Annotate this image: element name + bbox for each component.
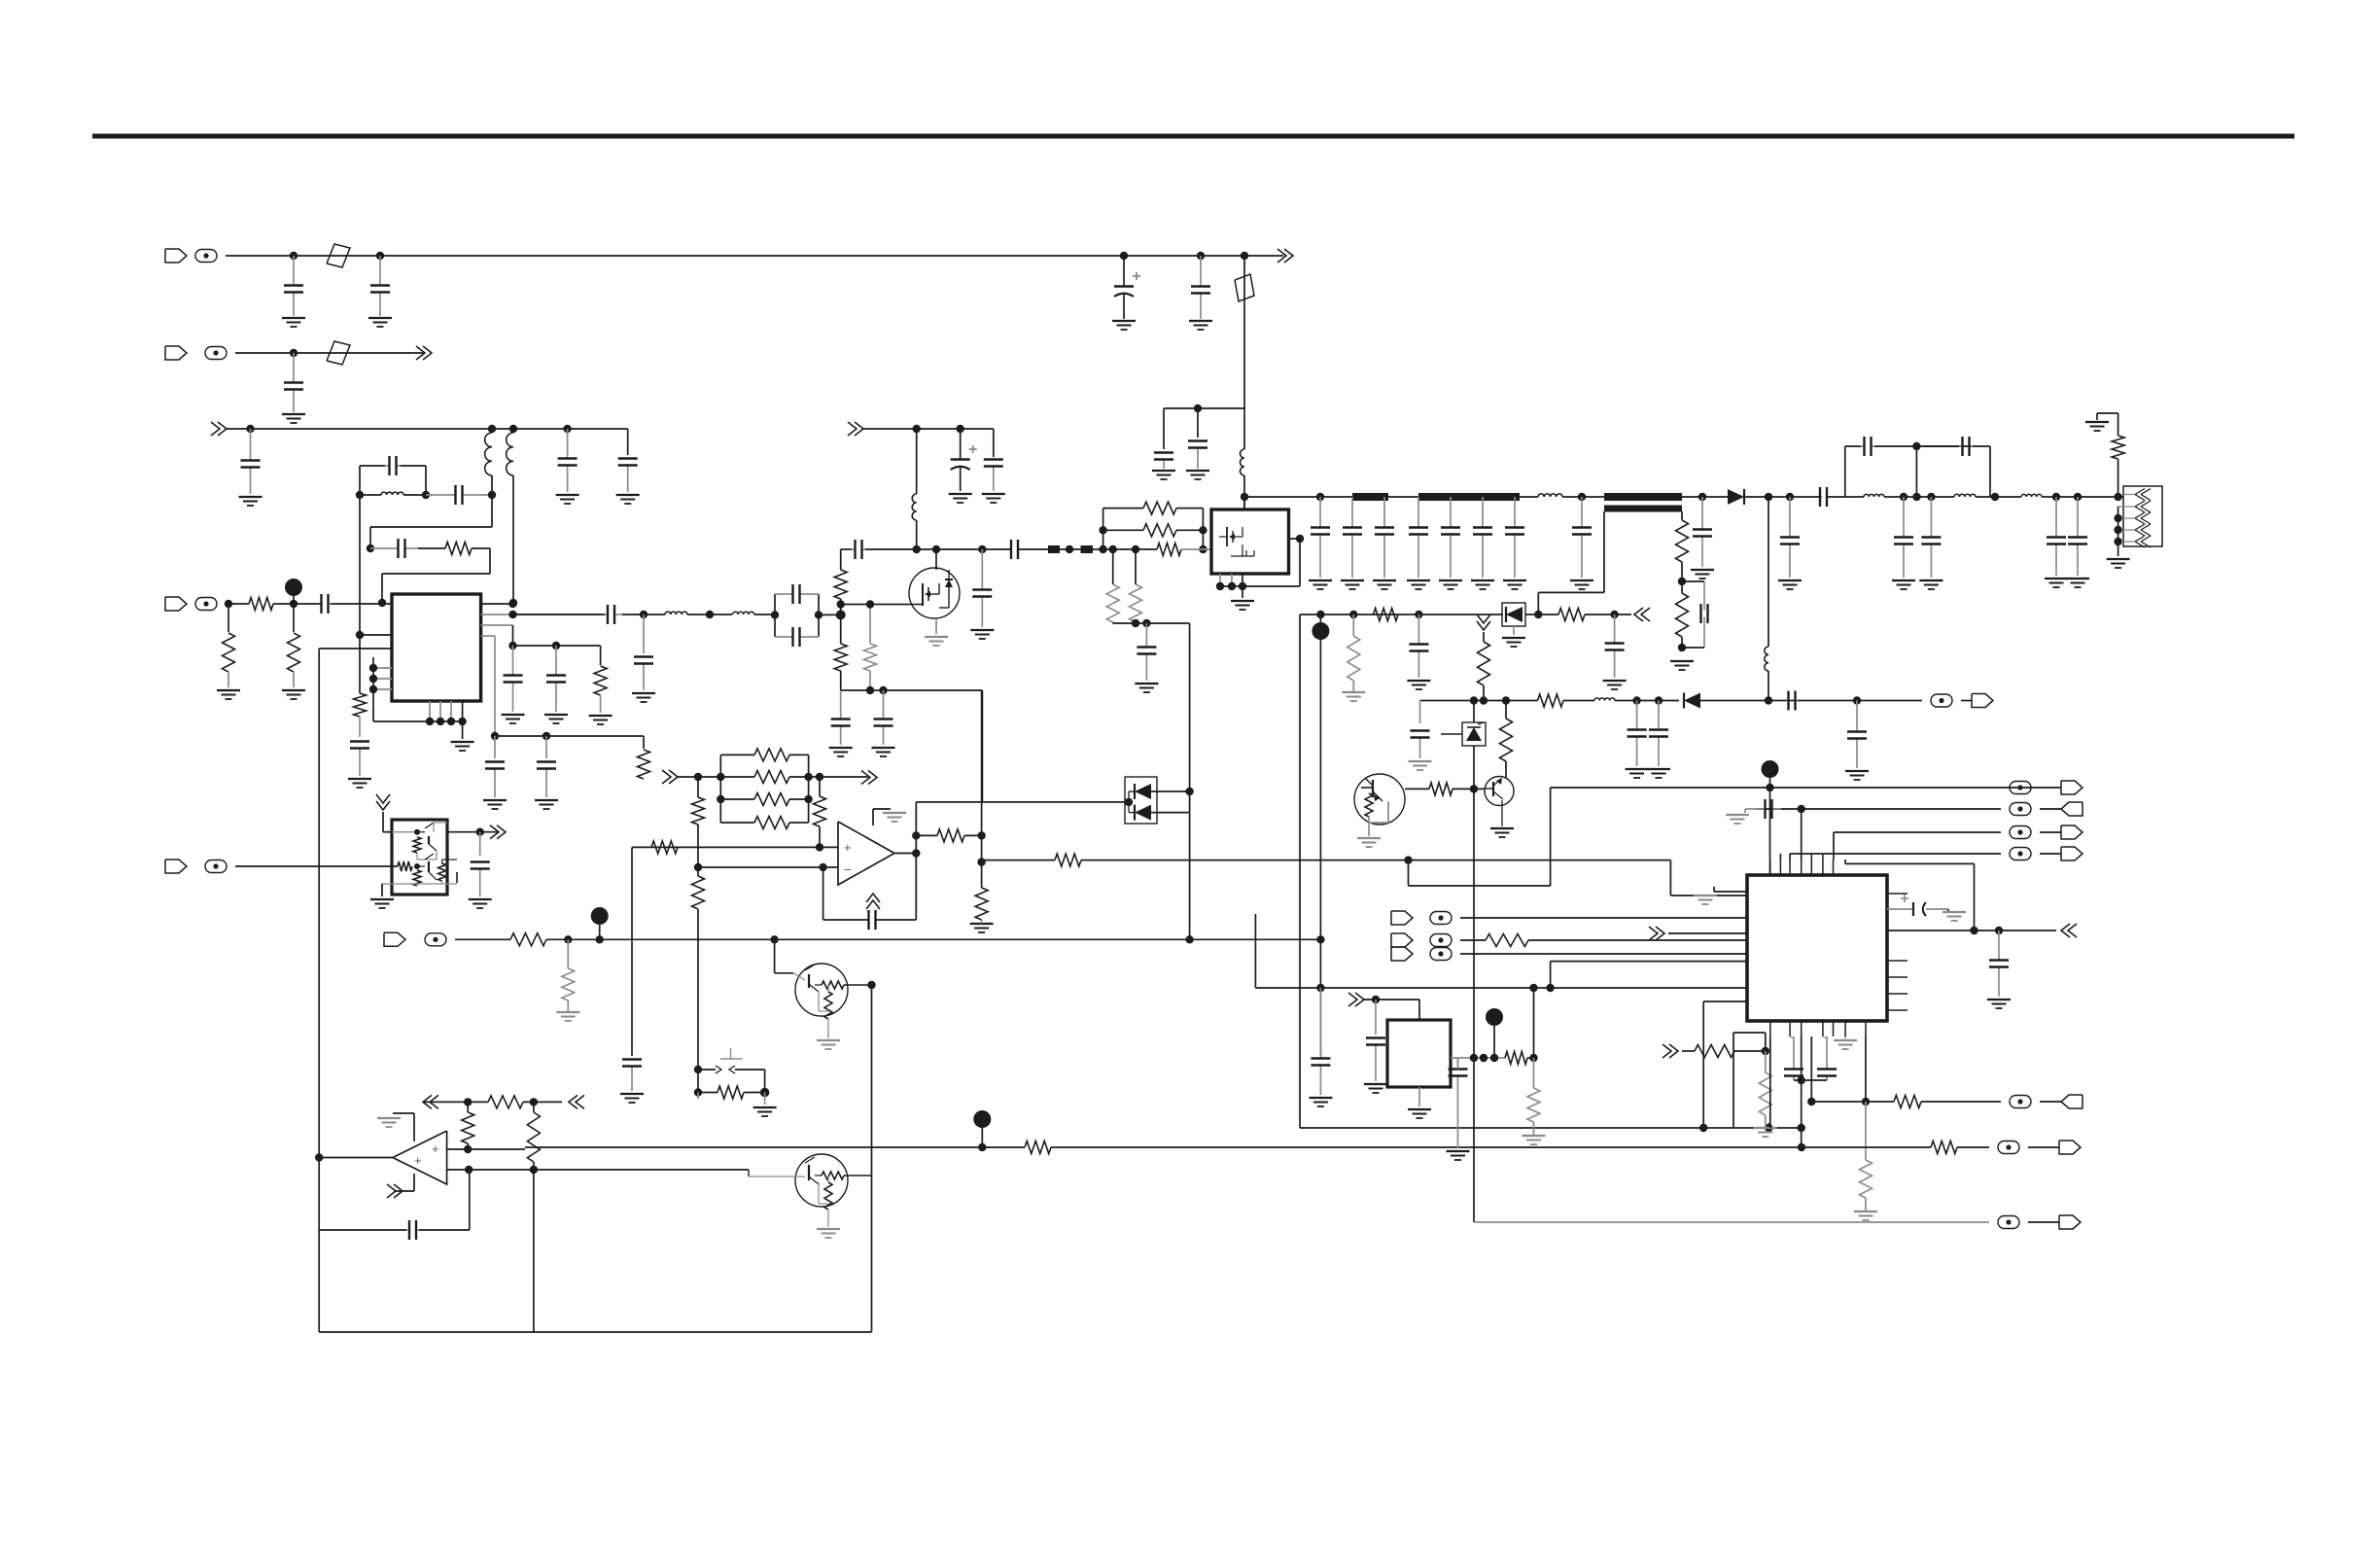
ground bbox=[817, 1039, 840, 1041]
wire bbox=[545, 736, 547, 758]
wire row799 bbox=[678, 776, 720, 778]
junction bbox=[1900, 493, 1907, 501]
wire bbox=[1921, 1101, 2001, 1103]
ground bbox=[970, 923, 994, 925]
capacitor C10 bbox=[627, 466, 629, 493]
wire bbox=[226, 603, 249, 605]
junction bbox=[1316, 493, 1324, 501]
off-page arrow bbox=[497, 825, 506, 839]
resistor R24 bbox=[1538, 694, 1564, 707]
collector out bbox=[447, 831, 498, 833]
plus row bbox=[447, 1148, 469, 1150]
capacitor C53 bbox=[1658, 701, 1660, 730]
junction bbox=[1099, 526, 1106, 534]
junction bbox=[816, 843, 823, 851]
resistor R47 bbox=[1505, 1052, 1527, 1065]
resistor R41 bbox=[717, 1086, 744, 1099]
wire bbox=[1164, 407, 1244, 409]
junction bbox=[1132, 545, 1139, 553]
capacitor C36 bbox=[1482, 497, 1484, 528]
wire bbox=[1528, 939, 1747, 941]
connector J4 antenna bbox=[2123, 486, 2162, 546]
pin3 bbox=[481, 624, 513, 626]
ground bbox=[1135, 683, 1158, 685]
resistor R15 bbox=[1130, 584, 1142, 622]
wire bbox=[600, 646, 602, 665]
inductor L1 bbox=[1241, 449, 1245, 475]
ground bbox=[1231, 600, 1254, 602]
junction bbox=[246, 425, 254, 433]
ground stub bbox=[1513, 626, 1515, 635]
junction bbox=[1470, 1054, 1478, 1062]
wire bbox=[1364, 999, 1419, 1001]
wire bbox=[1419, 701, 1421, 724]
capacitor C28b bbox=[852, 548, 856, 550]
junction big bbox=[836, 610, 846, 619]
feedback row bbox=[319, 1229, 406, 1231]
capacitor C14 bbox=[359, 749, 361, 777]
wire bbox=[1243, 256, 1245, 408]
junction bbox=[1798, 1076, 1805, 1084]
transistor Q4 inside bbox=[392, 831, 417, 833]
capacitor C57 bbox=[867, 919, 870, 921]
power hook bbox=[413, 1113, 415, 1141]
ground bbox=[1152, 470, 1175, 472]
wire bbox=[1420, 700, 1538, 702]
resistor R46 bbox=[1486, 934, 1528, 947]
arrow bbox=[394, 1184, 402, 1198]
wire bbox=[381, 884, 383, 896]
wire bbox=[915, 802, 917, 920]
capacitor C18 bbox=[512, 646, 514, 676]
wire bbox=[273, 603, 321, 605]
junction bbox=[706, 611, 714, 618]
junction bbox=[315, 1153, 323, 1161]
capacitor C40 bbox=[1699, 604, 1701, 623]
wire main line bbox=[1320, 496, 1352, 498]
capacitor C29 bbox=[1010, 548, 1012, 550]
wire bbox=[359, 635, 361, 693]
wire bbox=[1460, 953, 1747, 955]
capacitor C35 bbox=[1450, 497, 1452, 528]
wire bbox=[1767, 497, 1769, 647]
wire bbox=[982, 1146, 1025, 1148]
resistor R34 bbox=[692, 876, 705, 909]
junction bbox=[422, 491, 430, 499]
off-page arrow bbox=[1477, 621, 1490, 630]
inductor L2 bbox=[485, 433, 492, 475]
capacitor C11 bbox=[385, 465, 390, 467]
wire bbox=[1460, 939, 1486, 941]
wire bbox=[1915, 446, 1917, 497]
ferrite bead E17 bbox=[1998, 1216, 2019, 1229]
IC U1 driver bbox=[392, 594, 481, 701]
ferrite bead E1 bbox=[195, 250, 217, 263]
wire bbox=[360, 494, 381, 496]
ground bbox=[483, 799, 507, 801]
ground bbox=[368, 317, 392, 319]
wire bbox=[382, 812, 384, 832]
wire bbox=[1681, 562, 1683, 581]
connector J8 bbox=[384, 932, 405, 946]
capacitor C65 bbox=[1998, 931, 2000, 961]
junction bbox=[488, 425, 496, 433]
ground bbox=[589, 715, 612, 717]
wire bbox=[1585, 614, 1631, 615]
wire bbox=[419, 1229, 470, 1231]
wire bbox=[1102, 509, 1104, 549]
wire bbox=[981, 690, 983, 888]
wire bbox=[1779, 854, 1781, 860]
ground bbox=[451, 741, 474, 743]
off-page arrow bbox=[569, 1095, 577, 1108]
capacitor C23 bbox=[787, 636, 793, 638]
junction bbox=[1762, 1047, 1769, 1055]
junction bbox=[508, 642, 516, 650]
wire bbox=[643, 614, 645, 653]
resistor R35 bbox=[937, 829, 964, 842]
junction bbox=[1853, 696, 1861, 704]
junction bbox=[1995, 927, 2003, 934]
ferrite bead E10 bbox=[1430, 948, 1452, 961]
off-page arrow bbox=[1634, 608, 1643, 621]
junction bbox=[1699, 1124, 1707, 1132]
ground bbox=[1364, 1083, 1387, 1085]
wire bbox=[331, 603, 392, 605]
capacitor C64 electrolytic bbox=[1912, 902, 1914, 916]
ground bbox=[817, 1228, 840, 1230]
ground bbox=[1691, 569, 1714, 571]
ground bbox=[1778, 579, 1802, 581]
wire bbox=[1681, 581, 1683, 593]
junction bbox=[1199, 526, 1207, 534]
wire plus row bbox=[632, 846, 838, 848]
connector J9 bbox=[1391, 911, 1413, 925]
junction bbox=[1529, 984, 1537, 992]
ground bbox=[1490, 827, 1514, 829]
feedback row bbox=[822, 867, 824, 920]
resistor R20 bbox=[1374, 609, 1399, 621]
ground bbox=[620, 1093, 644, 1095]
junction bbox=[913, 545, 921, 553]
pin stubs left bbox=[373, 667, 392, 669]
capacitor C2 bbox=[379, 256, 381, 286]
output bbox=[319, 1157, 393, 1159]
resistor R53 bbox=[1931, 1141, 1957, 1154]
wire bbox=[226, 255, 1283, 257]
collector bbox=[1505, 777, 1507, 779]
wire bbox=[1254, 914, 1256, 988]
wire loop1 bbox=[359, 466, 361, 495]
wire bbox=[819, 614, 841, 615]
off-page arrow bbox=[855, 422, 863, 436]
junction bbox=[1991, 493, 1999, 501]
supply pin bbox=[1243, 497, 1245, 509]
connector J16 bbox=[2061, 1095, 2082, 1108]
resistor R44 bbox=[527, 1112, 540, 1162]
ground bbox=[1647, 768, 1670, 770]
output bbox=[894, 853, 916, 855]
wire long vertical x328 bbox=[318, 649, 320, 1332]
diode D2 in box bbox=[1502, 603, 1525, 626]
junction bbox=[1241, 252, 1248, 260]
resistor R28 bbox=[754, 771, 789, 784]
test point TP4 bbox=[591, 907, 609, 925]
wire bbox=[697, 825, 699, 867]
junction bbox=[1197, 252, 1205, 260]
ground bbox=[1407, 680, 1430, 682]
wire bbox=[1299, 614, 1301, 1128]
wire bbox=[1460, 917, 1747, 919]
junction bbox=[1502, 696, 1510, 704]
wire bbox=[423, 1101, 488, 1103]
off-page arrow bbox=[868, 771, 877, 785]
IC U4 bias block bbox=[392, 820, 447, 895]
resistor R8 bbox=[834, 570, 847, 599]
junction bbox=[640, 611, 647, 618]
capacitor C56 bbox=[631, 1067, 633, 1092]
wire bbox=[455, 938, 510, 940]
wire bbox=[1961, 700, 1972, 702]
ground bbox=[2085, 421, 2109, 423]
wire bbox=[1767, 1123, 1769, 1128]
wire row641 bbox=[1112, 622, 1114, 623]
wire bbox=[1767, 671, 1769, 701]
junction bbox=[1372, 996, 1380, 1003]
wire bbox=[1473, 701, 1475, 723]
wire bbox=[479, 832, 481, 856]
inductor L9 bbox=[1765, 647, 1768, 671]
wire bbox=[359, 495, 361, 635]
capacitor C13 bbox=[370, 547, 399, 549]
test point TP5 bbox=[973, 1110, 991, 1128]
junction bbox=[1765, 1124, 1772, 1132]
connector J7 bbox=[165, 860, 187, 873]
ground bbox=[949, 493, 972, 495]
capacitor C25 bbox=[883, 690, 885, 720]
gate row bbox=[841, 604, 910, 606]
wire bbox=[1452, 788, 1486, 790]
off-page arrow bbox=[423, 1095, 432, 1108]
pin gray bbox=[481, 635, 495, 637]
junction bbox=[1120, 252, 1128, 260]
capacitor C17 bbox=[494, 769, 496, 798]
junction bbox=[1529, 1054, 1537, 1062]
capacitor C34 bbox=[1417, 497, 1419, 528]
dual diode D4 in box bbox=[1125, 777, 1157, 824]
connector J6 bbox=[2061, 781, 2082, 794]
resistor R23 bbox=[1500, 719, 1513, 761]
capacitor C45 bbox=[1903, 497, 1905, 538]
capacitor C3 electrolytic bbox=[1123, 256, 1125, 287]
ground bbox=[632, 692, 655, 694]
ground bbox=[1603, 680, 1627, 682]
resistor R40 bbox=[562, 968, 575, 1001]
bottom pins U2 bbox=[1219, 574, 1221, 586]
gnd hook bbox=[1714, 891, 1747, 893]
wire bbox=[1765, 1033, 1767, 1051]
row C2 right bbox=[1802, 1146, 1931, 1148]
wire bbox=[916, 520, 918, 549]
resistor R39 bbox=[510, 933, 546, 946]
junction bbox=[1912, 442, 1920, 450]
connector J5 bbox=[1972, 694, 1993, 708]
op-amp U3B bbox=[393, 1131, 447, 1184]
transistor Q2 bbox=[1354, 774, 1405, 825]
ferrite bead E9 bbox=[1430, 934, 1452, 947]
resistor R29 bbox=[754, 793, 789, 806]
junction bbox=[356, 491, 364, 499]
wire bbox=[293, 672, 295, 687]
wire bbox=[840, 549, 842, 570]
bottom rail bbox=[319, 1331, 871, 1333]
wire bbox=[863, 428, 994, 430]
wire supply row bbox=[1244, 496, 1320, 498]
ground bbox=[1845, 770, 1869, 772]
junction bbox=[837, 600, 845, 608]
wire bbox=[622, 614, 665, 615]
wire bbox=[494, 736, 496, 758]
resistor R45 bbox=[1025, 1141, 1051, 1154]
junction bbox=[694, 1066, 702, 1073]
wire row1016 bbox=[1255, 987, 1747, 989]
wire coupler tap right bbox=[1681, 511, 1683, 520]
capacitor C24 bbox=[840, 690, 842, 720]
off-page arrow bbox=[423, 346, 432, 360]
transistor Q7 bbox=[795, 1154, 848, 1207]
wire bbox=[916, 801, 1129, 803]
junction bbox=[816, 773, 823, 781]
resistor R3 bbox=[223, 633, 235, 672]
junction bbox=[1610, 611, 1618, 618]
ground bbox=[469, 898, 492, 900]
junction bbox=[465, 1166, 472, 1174]
wire bbox=[1525, 614, 1558, 615]
top rail bbox=[1844, 446, 1846, 497]
wire bbox=[1527, 1057, 1534, 1059]
wire bbox=[227, 604, 229, 632]
connector J18 bbox=[2059, 1215, 2081, 1229]
resistor R31 bbox=[814, 796, 826, 826]
pin row bbox=[319, 648, 392, 650]
junction bbox=[771, 611, 779, 618]
minus row bbox=[447, 1169, 749, 1171]
coupler primary Z5 bbox=[1604, 493, 1682, 501]
capacitor C12 bbox=[426, 494, 456, 496]
junction bbox=[464, 1145, 472, 1153]
capacitor C49 bbox=[1417, 614, 1419, 645]
wire row878 bbox=[1790, 853, 2001, 855]
ground bbox=[982, 493, 1005, 495]
capacitor C33 bbox=[1383, 497, 1385, 528]
ground bbox=[502, 714, 525, 716]
svg-text:−: − bbox=[844, 862, 852, 877]
capacitor C4 bbox=[1200, 256, 1202, 287]
resistor R42 bbox=[488, 1096, 523, 1108]
junction bbox=[1766, 784, 1773, 791]
connector J11 bbox=[1391, 947, 1413, 961]
junction bbox=[760, 1088, 770, 1098]
wire bbox=[1702, 1001, 1704, 1128]
wire bbox=[764, 1093, 766, 1106]
junction bbox=[290, 600, 297, 608]
wire bbox=[1150, 812, 1190, 814]
wire bracket bbox=[372, 657, 374, 721]
ferrite bead E2 bbox=[205, 347, 227, 360]
capacitor C39 bbox=[1701, 497, 1703, 530]
junction bbox=[1798, 1124, 1805, 1132]
wire bbox=[916, 429, 918, 494]
resistor R26 bbox=[692, 797, 705, 825]
ground bbox=[1309, 1097, 1332, 1099]
ground bbox=[925, 636, 948, 638]
off-page arrow bbox=[218, 422, 227, 436]
wire bbox=[1060, 548, 1081, 550]
bottom pin bbox=[1418, 1087, 1420, 1106]
capacitor C22 bbox=[787, 593, 793, 595]
IC U5 bbox=[1747, 875, 1887, 1021]
capacitor C63 bbox=[1756, 808, 1766, 810]
off-page arrow bbox=[669, 770, 678, 784]
junction bbox=[2114, 493, 2121, 501]
wire bbox=[235, 352, 424, 354]
ferrite bead E15 bbox=[2010, 1096, 2031, 1108]
resistor R1 bbox=[445, 543, 472, 555]
junction bbox=[1678, 644, 1686, 651]
resistor network box bbox=[719, 755, 721, 823]
wire bbox=[1220, 585, 1300, 587]
resistor R38 bbox=[398, 861, 412, 871]
ground bbox=[872, 747, 895, 749]
inductor L11 bbox=[1954, 494, 1976, 497]
wire bbox=[2042, 496, 2123, 498]
junction bbox=[225, 600, 232, 608]
top pins bbox=[1769, 860, 1771, 875]
wire bbox=[871, 985, 873, 1332]
wire bbox=[1202, 509, 1204, 549]
junction bbox=[1470, 785, 1478, 792]
wire rail low bbox=[1300, 1127, 1703, 1129]
ground bbox=[1987, 999, 2011, 1001]
junction bbox=[977, 831, 985, 839]
junction bbox=[694, 1088, 702, 1096]
ground bbox=[1409, 760, 1432, 762]
ferrite bead E7 bbox=[425, 933, 446, 946]
wire jog bbox=[1408, 860, 1410, 886]
wire bbox=[1189, 791, 1191, 939]
wire bbox=[1018, 548, 1048, 550]
zener ZD1 in box bbox=[1462, 722, 1486, 746]
junction bbox=[1807, 1098, 1815, 1106]
ground bbox=[1112, 320, 1136, 322]
ground bbox=[217, 689, 240, 691]
wire bbox=[1957, 1146, 1989, 1148]
ground bbox=[370, 898, 394, 900]
wire bbox=[1769, 1036, 1771, 1128]
row957 bbox=[1887, 930, 2056, 931]
arrow down bbox=[376, 801, 390, 810]
transistor Q5 inside bbox=[413, 870, 421, 886]
resistor R9 bbox=[834, 644, 847, 671]
resistor R7 bbox=[594, 666, 607, 695]
junction bbox=[1765, 696, 1772, 704]
resistor R50 bbox=[1759, 1072, 1771, 1115]
wire bbox=[1976, 496, 2021, 498]
junction bbox=[1316, 611, 1324, 618]
resistor R4 bbox=[249, 598, 273, 611]
test point TP1 bbox=[285, 579, 302, 596]
capacitor C51 bbox=[1419, 738, 1421, 759]
